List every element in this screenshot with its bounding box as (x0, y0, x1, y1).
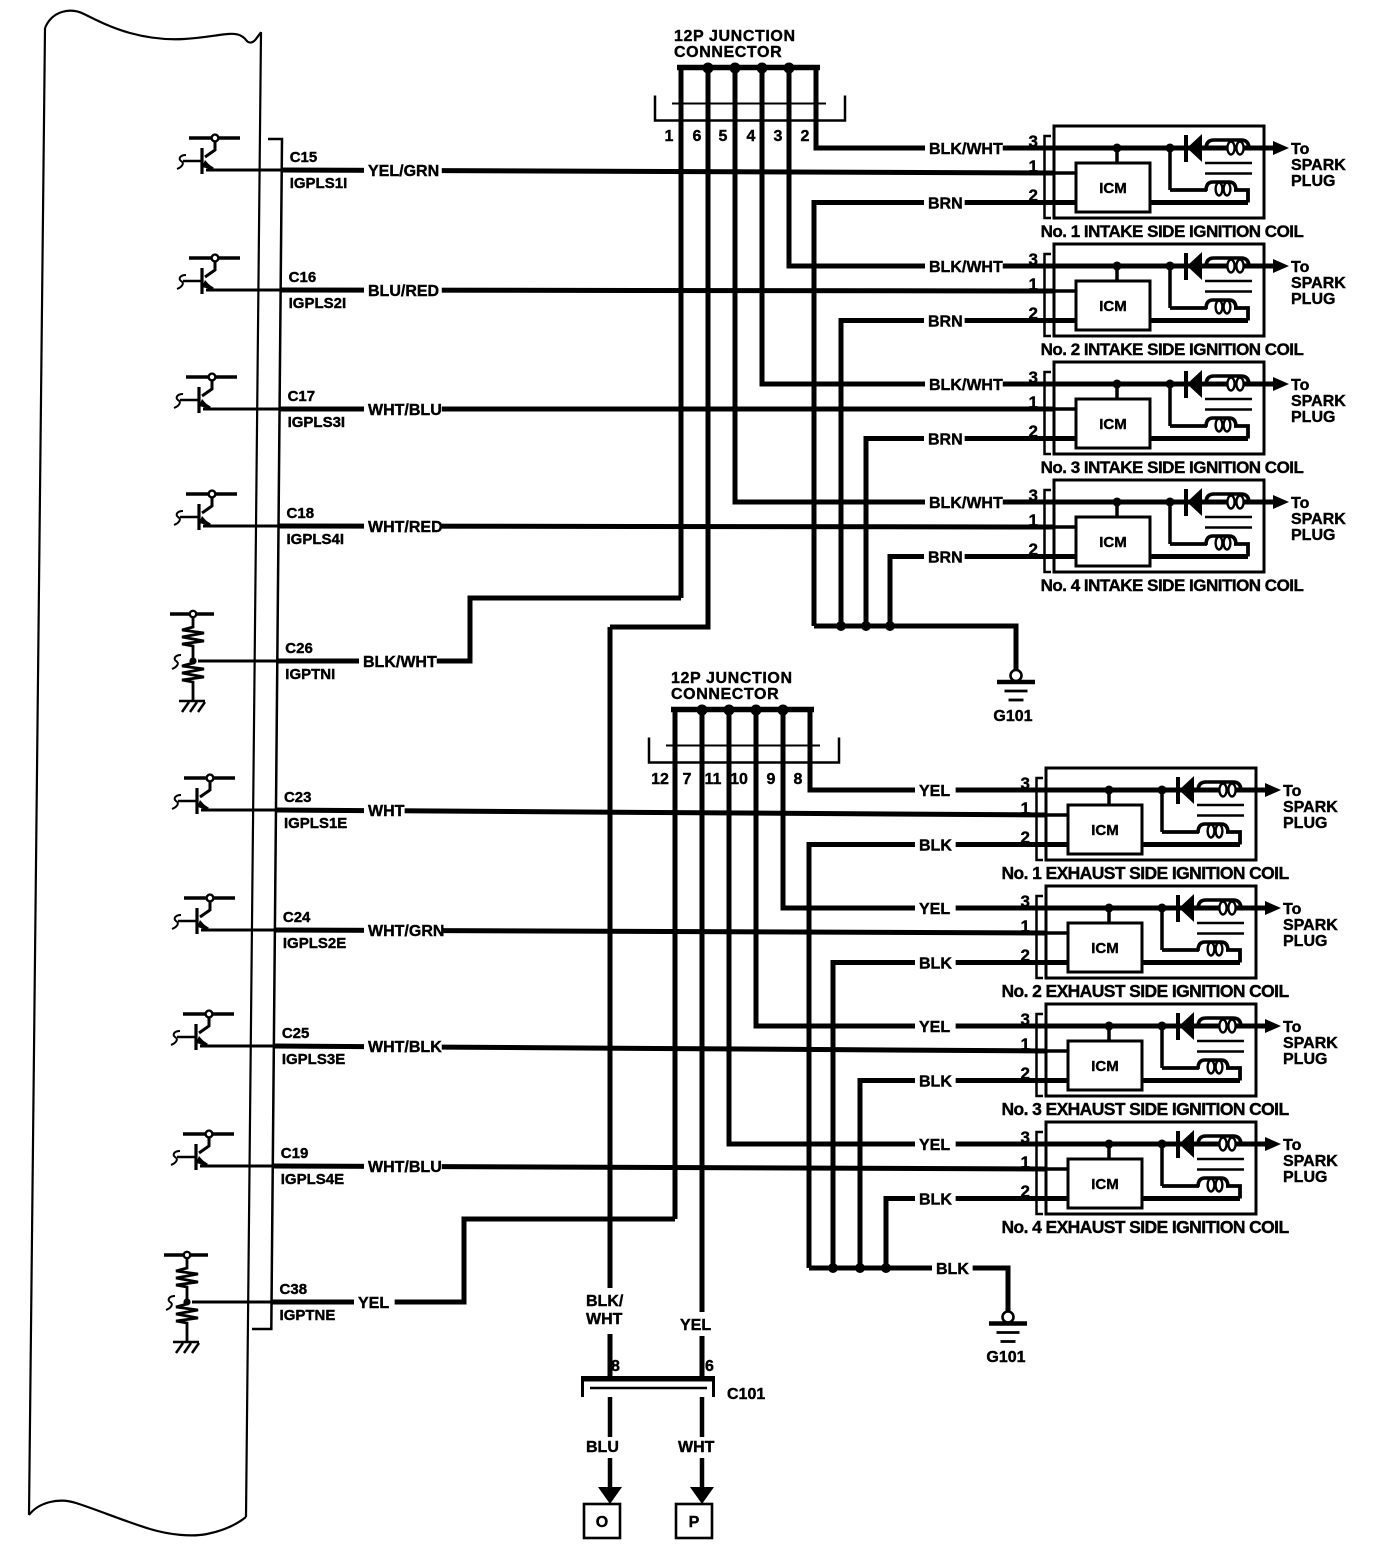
svg-text:12P JUNCTION: 12P JUNCTION (671, 670, 793, 687)
svg-text:2: 2 (1021, 946, 1030, 965)
svg-text:No. 3 EXHAUST SIDE IGNITION CO: No. 3 EXHAUST SIDE IGNITION COIL (1001, 1099, 1289, 1119)
svg-text:4: 4 (747, 128, 756, 145)
svg-text:BRN: BRN (928, 196, 963, 213)
svg-text:12P JUNCTION: 12P JUNCTION (674, 28, 796, 45)
svg-text:ICM: ICM (1099, 534, 1127, 551)
svg-text:BLK/WHT: BLK/WHT (363, 654, 437, 671)
svg-text:3: 3 (1029, 486, 1038, 505)
svg-text:No. 1 INTAKE SIDE IGNITION COI: No. 1 INTAKE SIDE IGNITION COIL (1041, 222, 1304, 241)
svg-text:No. 1 EXHAUST SIDE IGNITION CO: No. 1 EXHAUST SIDE IGNITION COIL (1001, 863, 1289, 883)
svg-text:SPARK: SPARK (1291, 511, 1346, 528)
svg-text:To: To (1291, 377, 1310, 394)
svg-text:3: 3 (1021, 892, 1030, 911)
svg-text:1: 1 (1021, 1153, 1030, 1172)
svg-text:IGPLS3I: IGPLS3I (288, 414, 346, 431)
svg-text:C101: C101 (727, 1386, 765, 1403)
svg-text:P: P (689, 1514, 700, 1531)
svg-text:BRN: BRN (928, 550, 963, 567)
svg-text:BLK: BLK (919, 1192, 952, 1209)
svg-text:BLK: BLK (936, 1261, 969, 1278)
svg-text:PLUG: PLUG (1291, 173, 1335, 190)
svg-text:3: 3 (1029, 250, 1038, 269)
svg-text:3: 3 (1021, 774, 1030, 793)
svg-text:BLK/: BLK/ (586, 1293, 624, 1310)
svg-text:PLUG: PLUG (1291, 291, 1335, 308)
svg-text:2: 2 (1021, 828, 1030, 847)
svg-text:To: To (1283, 1019, 1302, 1036)
svg-text:C19: C19 (281, 1145, 309, 1162)
svg-text:To: To (1291, 495, 1310, 512)
svg-text:YEL: YEL (919, 1019, 950, 1036)
svg-text:1: 1 (1029, 511, 1038, 530)
svg-text:To: To (1283, 1137, 1302, 1154)
svg-text:G101: G101 (986, 1349, 1025, 1366)
svg-text:YEL: YEL (358, 1295, 389, 1312)
svg-text:C38: C38 (280, 1281, 308, 1298)
svg-text:BLK: BLK (919, 1074, 952, 1091)
svg-text:IGPLS4E: IGPLS4E (281, 1171, 344, 1188)
svg-text:BLK/WHT: BLK/WHT (929, 141, 1003, 158)
svg-text:No. 2 EXHAUST SIDE IGNITION CO: No. 2 EXHAUST SIDE IGNITION COIL (1001, 981, 1289, 1001)
svg-text:To: To (1283, 901, 1302, 918)
svg-text:PLUG: PLUG (1291, 527, 1335, 544)
svg-text:C23: C23 (284, 789, 312, 806)
svg-text:BLK/WHT: BLK/WHT (929, 259, 1003, 276)
svg-text:YEL: YEL (919, 783, 950, 800)
svg-text:ICM: ICM (1091, 822, 1119, 839)
svg-text:SPARK: SPARK (1283, 917, 1338, 934)
svg-text:No. 4 INTAKE SIDE IGNITION COI: No. 4 INTAKE SIDE IGNITION COIL (1041, 576, 1304, 595)
svg-text:BLK: BLK (919, 956, 952, 973)
svg-text:3: 3 (1029, 132, 1038, 151)
svg-text:11: 11 (705, 771, 722, 788)
svg-text:PLUG: PLUG (1291, 409, 1335, 426)
svg-text:C15: C15 (290, 149, 318, 166)
svg-text:8: 8 (611, 1358, 620, 1375)
svg-text:No. 2 INTAKE SIDE IGNITION COI: No. 2 INTAKE SIDE IGNITION COIL (1041, 340, 1304, 359)
svg-text:ICM: ICM (1091, 940, 1119, 957)
svg-text:7: 7 (683, 771, 692, 788)
svg-text:1: 1 (1021, 917, 1030, 936)
svg-text:8: 8 (794, 771, 803, 788)
svg-text:1: 1 (1021, 1035, 1030, 1054)
svg-text:10: 10 (730, 771, 748, 788)
svg-text:IGPLS2I: IGPLS2I (289, 295, 347, 312)
svg-text:IGPLS2E: IGPLS2E (283, 935, 346, 952)
svg-text:YEL: YEL (680, 1317, 711, 1334)
svg-text:YEL: YEL (919, 901, 950, 918)
svg-text:2: 2 (1029, 186, 1038, 205)
svg-text:3: 3 (1029, 368, 1038, 387)
svg-text:9: 9 (767, 771, 776, 788)
svg-text:ICM: ICM (1099, 416, 1127, 433)
svg-text:To: To (1291, 259, 1310, 276)
svg-text:2: 2 (1029, 540, 1038, 559)
svg-text:C18: C18 (287, 505, 315, 522)
svg-text:1: 1 (1029, 157, 1038, 176)
svg-text:To: To (1283, 783, 1302, 800)
svg-text:12: 12 (651, 771, 669, 788)
svg-text:IGPLS4I: IGPLS4I (287, 531, 345, 548)
svg-text:PLUG: PLUG (1283, 933, 1327, 950)
svg-text:IGPLS3E: IGPLS3E (282, 1051, 345, 1068)
svg-text:ICM: ICM (1099, 180, 1127, 197)
svg-text:WHT/BLK: WHT/BLK (368, 1039, 442, 1056)
svg-text:1: 1 (665, 128, 674, 145)
svg-text:SPARK: SPARK (1291, 275, 1346, 292)
svg-text:WHT/BLU: WHT/BLU (368, 1159, 442, 1176)
svg-text:WHT: WHT (678, 1439, 715, 1456)
svg-text:C26: C26 (285, 640, 313, 657)
svg-text:YEL/GRN: YEL/GRN (368, 163, 439, 180)
svg-text:O: O (596, 1514, 608, 1531)
svg-text:ICM: ICM (1091, 1058, 1119, 1075)
svg-text:3: 3 (1021, 1010, 1030, 1029)
svg-text:IGPLS1E: IGPLS1E (284, 815, 347, 832)
svg-text:PLUG: PLUG (1283, 1169, 1327, 1186)
svg-text:2: 2 (801, 128, 810, 145)
svg-text:C16: C16 (289, 269, 317, 286)
svg-text:SPARK: SPARK (1283, 1153, 1338, 1170)
svg-text:WHT/RED: WHT/RED (368, 519, 443, 536)
svg-text:5: 5 (719, 128, 728, 145)
svg-text:SPARK: SPARK (1291, 157, 1346, 174)
svg-text:G101: G101 (993, 708, 1032, 725)
svg-text:C24: C24 (283, 909, 311, 926)
svg-text:3: 3 (774, 128, 783, 145)
svg-text:SPARK: SPARK (1283, 1035, 1338, 1052)
svg-text:WHT/GRN: WHT/GRN (368, 923, 444, 940)
svg-text:BLK/WHT: BLK/WHT (929, 377, 1003, 394)
svg-text:CONNECTOR: CONNECTOR (671, 686, 779, 703)
svg-text:No. 3 INTAKE SIDE IGNITION COI: No. 3 INTAKE SIDE IGNITION COIL (1041, 458, 1304, 477)
svg-text:WHT/BLU: WHT/BLU (368, 402, 442, 419)
svg-text:2: 2 (1021, 1182, 1030, 1201)
svg-text:No. 4 EXHAUST SIDE IGNITION CO: No. 4 EXHAUST SIDE IGNITION COIL (1001, 1217, 1289, 1237)
svg-text:6: 6 (705, 1358, 714, 1375)
svg-text:2: 2 (1029, 304, 1038, 323)
svg-text:PLUG: PLUG (1283, 1051, 1327, 1068)
svg-text:YEL: YEL (919, 1137, 950, 1154)
svg-text:SPARK: SPARK (1283, 799, 1338, 816)
svg-text:3: 3 (1021, 1128, 1030, 1147)
svg-text:BLU: BLU (586, 1439, 619, 1456)
svg-text:CONNECTOR: CONNECTOR (674, 44, 782, 61)
svg-text:C17: C17 (288, 388, 316, 405)
svg-text:ICM: ICM (1091, 1176, 1119, 1193)
svg-text:WHT: WHT (368, 803, 405, 820)
svg-text:1: 1 (1021, 799, 1030, 818)
svg-text:C25: C25 (282, 1025, 310, 1042)
svg-text:To: To (1291, 141, 1310, 158)
svg-text:BRN: BRN (928, 432, 963, 449)
svg-text:BLK: BLK (919, 838, 952, 855)
svg-text:IGPLS1I: IGPLS1I (290, 175, 348, 192)
svg-text:2: 2 (1021, 1064, 1030, 1083)
svg-text:1: 1 (1029, 393, 1038, 412)
svg-text:PLUG: PLUG (1283, 815, 1327, 832)
svg-text:BLK/WHT: BLK/WHT (929, 495, 1003, 512)
svg-text:IGPTNE: IGPTNE (280, 1307, 336, 1324)
svg-text:WHT: WHT (586, 1311, 623, 1328)
svg-text:SPARK: SPARK (1291, 393, 1346, 410)
svg-text:ICM: ICM (1099, 298, 1127, 315)
svg-text:BLU/RED: BLU/RED (368, 283, 439, 300)
svg-text:2: 2 (1029, 422, 1038, 441)
svg-text:IGPTNI: IGPTNI (285, 666, 335, 683)
svg-text:1: 1 (1029, 275, 1038, 294)
svg-text:6: 6 (693, 128, 702, 145)
svg-text:BRN: BRN (928, 314, 963, 331)
